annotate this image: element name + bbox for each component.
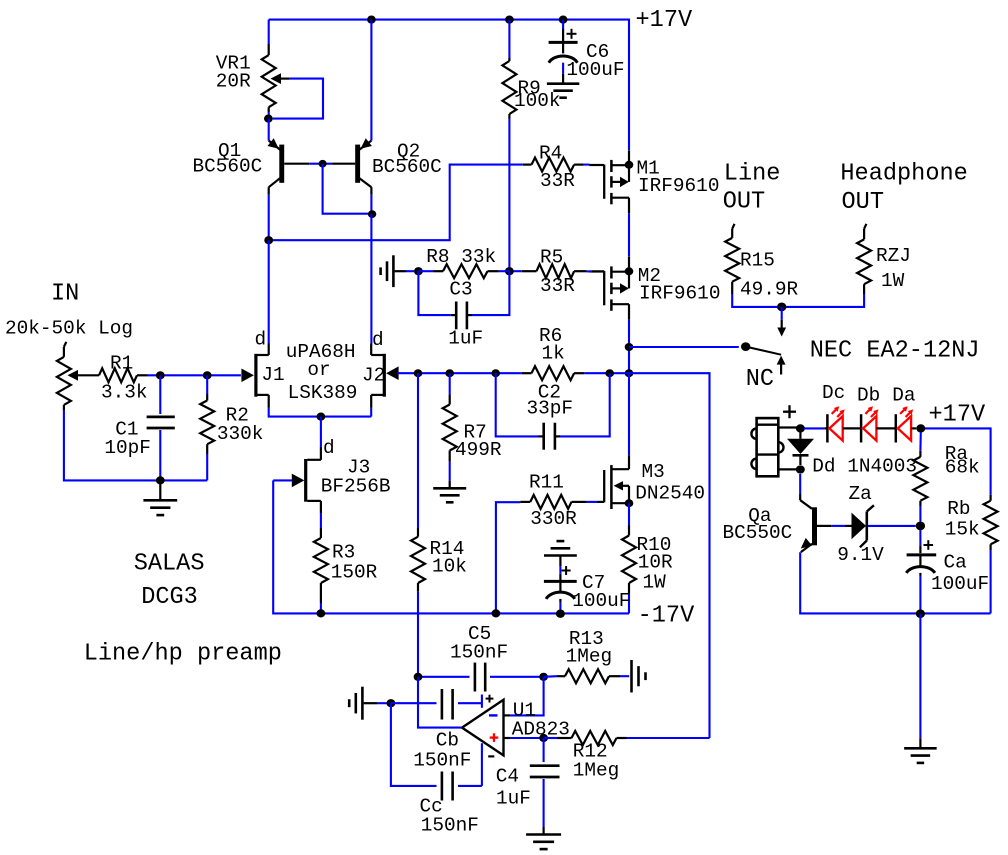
svg-text:100uF: 100uF (931, 573, 989, 595)
svg-text:-17V: -17V (638, 602, 695, 629)
svg-text:R4: R4 (539, 142, 562, 164)
svg-text:+17V: +17V (636, 7, 693, 34)
svg-text:NC: NC (746, 366, 774, 393)
svg-text:d: d (323, 437, 335, 459)
svg-text:R3: R3 (332, 542, 355, 564)
svg-text:d: d (255, 329, 267, 351)
svg-text:R1: R1 (110, 352, 133, 374)
svg-text:AD823: AD823 (512, 719, 570, 741)
svg-text:Da: Da (892, 385, 915, 407)
svg-text:IRF9610: IRF9610 (638, 175, 719, 197)
svg-text:R5: R5 (540, 246, 563, 268)
svg-text:150R: 150R (331, 562, 378, 584)
svg-text:1k: 1k (542, 343, 565, 365)
svg-text:1uF: 1uF (448, 327, 483, 349)
svg-text:SALAS: SALAS (134, 551, 205, 578)
svg-text:150nF: 150nF (421, 814, 479, 836)
svg-text:1uF: 1uF (496, 787, 531, 809)
svg-text:RZJ: RZJ (876, 245, 911, 267)
svg-text:20k-50k Log: 20k-50k Log (5, 318, 133, 340)
svg-text:OUT: OUT (723, 189, 765, 216)
svg-text:d: d (372, 329, 384, 351)
svg-text:IN: IN (51, 280, 79, 307)
svg-text:BF256B: BF256B (321, 475, 391, 497)
svg-text:150nF: 150nF (413, 749, 471, 771)
svg-text:1W: 1W (643, 572, 667, 594)
svg-text:1Meg: 1Meg (566, 646, 613, 668)
svg-text:100uF: 100uF (566, 59, 624, 81)
svg-text:Db: Db (857, 385, 880, 407)
svg-text:33R: 33R (540, 275, 575, 297)
svg-text:Za: Za (849, 483, 872, 505)
svg-text:DCG3: DCG3 (141, 584, 198, 611)
svg-text:68k: 68k (945, 457, 980, 479)
svg-text:10R: 10R (638, 552, 673, 574)
svg-text:Rb: Rb (947, 498, 970, 520)
svg-text:IRF9610: IRF9610 (639, 283, 720, 305)
svg-text:M3: M3 (642, 461, 665, 483)
svg-text:33R: 33R (540, 170, 575, 192)
svg-text:330k: 330k (217, 423, 264, 445)
svg-text:J2: J2 (362, 365, 385, 387)
svg-text:R8 33k: R8 33k (426, 246, 496, 268)
svg-text:Cb: Cb (436, 729, 459, 751)
svg-text:J1: J1 (261, 364, 284, 386)
svg-text:LSK389: LSK389 (288, 382, 358, 404)
svg-text:330R: 330R (530, 508, 577, 530)
svg-text:R15: R15 (740, 249, 775, 271)
svg-text:499R: 499R (455, 439, 502, 461)
svg-text:NEC EA2-12NJ: NEC EA2-12NJ (810, 338, 980, 365)
svg-text:C3: C3 (449, 279, 472, 301)
svg-text:100k: 100k (514, 90, 561, 112)
svg-text:20R: 20R (216, 70, 251, 92)
svg-text:33pF: 33pF (527, 398, 574, 420)
svg-text:Ca: Ca (944, 552, 967, 574)
svg-text:10k: 10k (432, 555, 467, 577)
svg-text:BC560C: BC560C (372, 156, 442, 178)
svg-text:Headphone: Headphone (840, 161, 967, 188)
svg-text:9.1V: 9.1V (837, 544, 884, 566)
svg-text:100uF: 100uF (572, 590, 630, 612)
svg-text:BC550C: BC550C (723, 522, 793, 544)
svg-text:10pF: 10pF (104, 437, 151, 459)
svg-text:or: or (307, 359, 330, 381)
svg-text:OUT: OUT (842, 189, 884, 216)
svg-text:Dc: Dc (822, 382, 845, 404)
svg-text:Dd 1N4003: Dd 1N4003 (812, 456, 917, 478)
svg-text:1Meg: 1Meg (573, 759, 620, 781)
svg-text:BC560C: BC560C (193, 155, 263, 177)
svg-text:150nF: 150nF (450, 641, 508, 663)
svg-text:Line/hp preamp: Line/hp preamp (84, 641, 282, 668)
svg-text:49.9R: 49.9R (740, 278, 799, 300)
svg-text:15k: 15k (945, 518, 980, 540)
svg-text:R11: R11 (529, 472, 564, 494)
svg-text:Line: Line (724, 161, 781, 188)
svg-text:C4: C4 (496, 766, 519, 788)
svg-text:3.3k: 3.3k (101, 381, 148, 403)
svg-text:+17V: +17V (929, 402, 986, 429)
svg-text:DN2540: DN2540 (635, 483, 705, 505)
svg-text:1W: 1W (881, 270, 905, 292)
